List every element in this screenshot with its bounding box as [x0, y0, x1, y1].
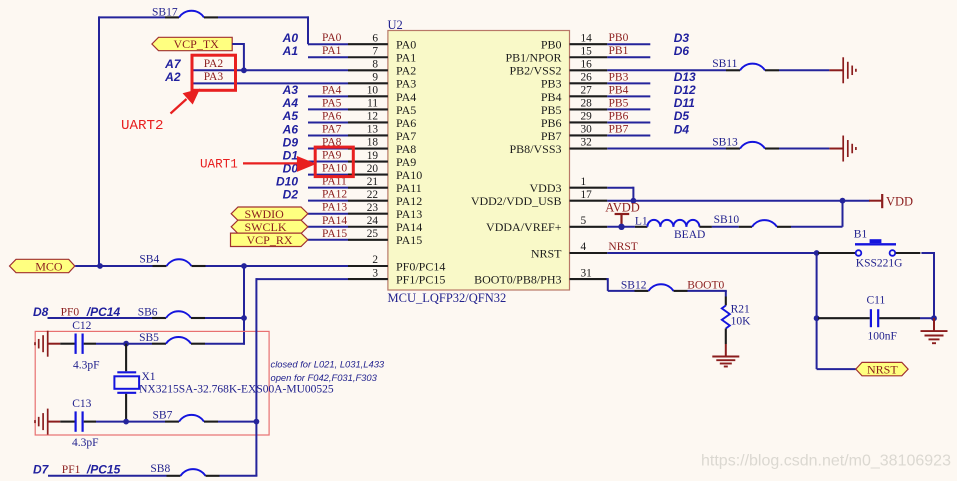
pin 6 (PA0): [348, 32, 388, 44]
svg-text:10: 10: [367, 85, 379, 97]
ground (SB13): [829, 136, 856, 162]
pin 13 (PA7): [348, 124, 388, 136]
svg-text:C12: C12: [72, 320, 91, 332]
svg-text:PB8/VSS3: PB8/VSS3: [509, 142, 561, 156]
svg-text:AVDD: AVDD: [605, 201, 640, 215]
wire NRST vertical left: [816, 253, 818, 369]
svg-text:21: 21: [367, 176, 378, 188]
label A2: [164, 70, 181, 84]
svg-text:15: 15: [581, 45, 593, 57]
svg-text:VDD2/VDD_USB: VDD2/VDD_USB: [471, 194, 562, 208]
svg-text:8: 8: [372, 58, 378, 70]
label D11: [674, 96, 695, 110]
pin 3 (PF1/PC15): [348, 267, 388, 279]
svg-text:VDDA/VREF+: VDDA/VREF+: [486, 220, 562, 234]
svg-text:PF1/PC15: PF1/PC15: [396, 273, 445, 287]
wire C12 to SB5: [96, 343, 152, 345]
net label PA15: [322, 228, 347, 240]
svg-text:PF0/PC14: PF0/PC14: [396, 259, 445, 273]
capacitor C11: [818, 294, 920, 342]
crystal X1: [114, 344, 333, 422]
svg-text:C13: C13: [72, 398, 91, 410]
wire PA6 stub: [308, 121, 348, 123]
svg-text:PB3: PB3: [541, 77, 562, 91]
net label PA9: [322, 150, 342, 162]
svg-text:PA4: PA4: [322, 84, 342, 96]
svg-text:SB4: SB4: [139, 253, 159, 265]
svg-text:D9: D9: [283, 135, 299, 149]
wire pin31 jog: [606, 278, 634, 291]
svg-text:30: 30: [581, 124, 593, 136]
pin 23 (PA13): [348, 202, 388, 214]
net label PF0: [61, 306, 80, 318]
svg-text:/PC14: /PC14: [86, 305, 121, 319]
svg-text:D13: D13: [674, 70, 696, 84]
capacitor C12: [60, 320, 99, 372]
net label PA10: [322, 163, 347, 175]
pin 7 (PA1): [348, 45, 388, 57]
net label PA12: [322, 189, 347, 201]
annotation text UART2: [121, 118, 164, 134]
svg-text:25: 25: [367, 228, 379, 240]
wire VCP_TX to PA2: [232, 43, 244, 70]
wire SB11 to ground: [779, 69, 829, 71]
wire PB1 stub: [607, 56, 650, 58]
junction SB6/branch: [241, 315, 247, 321]
svg-text:SB10: SB10: [714, 214, 740, 226]
svg-text:D5: D5: [674, 109, 690, 123]
svg-text:BEAD: BEAD: [674, 229, 705, 241]
solder bridge SB17: [152, 6, 218, 18]
net label PB5: [609, 97, 629, 109]
svg-text:22: 22: [367, 189, 379, 201]
wire PA2: [193, 69, 348, 71]
wire SB7 to pin3 branch: [218, 421, 256, 423]
annotation box UART1 (PA9/PA10): [315, 147, 353, 177]
net label PA8: [322, 137, 342, 149]
svg-text:UART2: UART2: [121, 118, 164, 134]
wire PA9 stub: [308, 161, 348, 163]
solder bridge SB8: [150, 463, 219, 476]
port NRST: [856, 362, 908, 376]
capacitor C13: [60, 398, 98, 449]
wire PA14 stub: [308, 226, 348, 228]
label D13: [674, 70, 696, 84]
svg-text:https://blog.csdn.net/m0_38106: https://blog.csdn.net/m0_38106923: [701, 453, 951, 470]
svg-text:A1: A1: [282, 44, 299, 58]
svg-text:PA9: PA9: [396, 155, 416, 169]
wire SB6 to branch: [205, 317, 244, 319]
svg-text:10K: 10K: [731, 316, 752, 328]
svg-text:PA6: PA6: [322, 110, 342, 122]
solder bridge SB6: [138, 306, 205, 318]
svg-text:PB0: PB0: [609, 32, 629, 44]
svg-text:VDD: VDD: [886, 194, 913, 208]
svg-text:PA4: PA4: [396, 90, 416, 104]
svg-text:PA13: PA13: [396, 207, 422, 221]
pin 11 (PA5): [348, 98, 388, 110]
wire C11 right: [920, 317, 934, 319]
svg-text:D6: D6: [674, 44, 690, 58]
watermark: [701, 453, 951, 470]
label /PC14: [86, 305, 121, 319]
svg-text:SB7: SB7: [153, 409, 173, 421]
svg-text:4.3pF: 4.3pF: [72, 437, 99, 449]
svg-text:PB6: PB6: [541, 116, 562, 130]
svg-text:D10: D10: [276, 174, 298, 188]
svg-text:SWCLK: SWCLK: [245, 220, 287, 234]
svg-text:PA10: PA10: [322, 163, 347, 175]
junction VDD/SB10: [840, 198, 846, 204]
label A7: [164, 57, 182, 71]
wire PA13 stub: [308, 213, 348, 215]
svg-text:PA5: PA5: [396, 103, 416, 117]
wire MCO to SB4: [75, 265, 152, 267]
ground (SB11): [829, 57, 856, 83]
pin 15 (PB1/NPOR): [570, 45, 608, 57]
svg-text:PA3: PA3: [204, 71, 224, 83]
pin 16 (PB2/VSS2): [570, 58, 608, 70]
label D12: [674, 83, 696, 97]
svg-text:PA6: PA6: [396, 116, 416, 130]
net label PB7: [609, 123, 629, 135]
annotation text UART1: [200, 158, 238, 172]
solder bridge SB13: [712, 137, 779, 149]
svg-text:D3: D3: [674, 31, 690, 45]
wire SB8 to pin3: [220, 475, 258, 477]
svg-text:18: 18: [367, 137, 379, 149]
svg-text:32: 32: [581, 137, 593, 149]
junction VCP_TX/PA2: [241, 67, 247, 73]
svg-text:BOOT0: BOOT0: [687, 280, 724, 292]
svg-text:17: 17: [581, 189, 593, 201]
junction pin1/pin17: [631, 198, 637, 204]
svg-text:PA1: PA1: [322, 45, 342, 57]
label D3: [674, 31, 690, 45]
wire SB17 left: [99, 16, 165, 267]
svg-text:PA14: PA14: [322, 215, 347, 227]
wire PB3 stub: [607, 82, 650, 84]
svg-text:24: 24: [367, 215, 379, 227]
svg-text:PA15: PA15: [322, 228, 347, 240]
pin 27 (PB4): [570, 85, 608, 97]
svg-text:A4: A4: [282, 96, 299, 110]
svg-text:PB5: PB5: [609, 97, 629, 109]
svg-text:SB6: SB6: [138, 306, 158, 318]
wire SB12 to R21: [688, 291, 727, 297]
svg-text:PA7: PA7: [396, 129, 416, 143]
pin 19 (PA9): [348, 150, 388, 162]
svg-text:PB3: PB3: [609, 71, 629, 83]
net label PA7: [322, 123, 342, 135]
svg-text:PB5: PB5: [541, 103, 562, 117]
label A4: [282, 96, 299, 110]
pin 29 (PB6): [570, 111, 608, 123]
wire PA12 stub: [308, 200, 348, 202]
wire PF1 to SB8: [48, 475, 167, 477]
svg-text:open for F042,F031,F303: open for F042,F031,F303: [271, 372, 378, 383]
label D10: [276, 174, 298, 188]
wire pin1 down: [607, 187, 633, 201]
svg-text:VCP_TX: VCP_TX: [174, 37, 220, 51]
net label PB0: [609, 32, 629, 44]
svg-text:14: 14: [581, 32, 593, 44]
svg-text:KSS221G: KSS221G: [856, 258, 903, 270]
svg-text:D1: D1: [283, 148, 299, 162]
svg-text:2: 2: [372, 254, 378, 266]
svg-text:R21: R21: [731, 303, 750, 315]
annotation arrow UART2: [171, 90, 199, 113]
svg-text:9: 9: [372, 72, 378, 84]
wire SB4 to pin2: [206, 265, 349, 267]
pin 9 (PA3): [348, 72, 388, 84]
wire PB5 stub: [607, 108, 650, 110]
junction C12/X1: [123, 341, 129, 347]
svg-text:PA10: PA10: [396, 168, 422, 182]
label /PC15: [86, 463, 121, 477]
net label NRST: [608, 241, 637, 253]
net label PA1: [322, 45, 342, 57]
wire to NRST port: [817, 368, 856, 370]
svg-text:PA0: PA0: [396, 38, 416, 52]
pin 14 (PB0): [570, 32, 608, 44]
junction C11 left: [814, 315, 820, 321]
wire PA7 stub: [308, 134, 348, 136]
svg-text:PA8: PA8: [396, 142, 416, 156]
label D9: [283, 135, 299, 149]
port SWDIO: [231, 207, 308, 221]
svg-text:PA12: PA12: [322, 189, 347, 201]
svg-text:4: 4: [581, 241, 587, 253]
svg-text:A6: A6: [282, 122, 299, 136]
svg-text:C11: C11: [867, 294, 886, 306]
svg-text:PA0: PA0: [322, 32, 342, 44]
svg-text:PA13: PA13: [322, 202, 347, 214]
svg-text:PB4: PB4: [541, 90, 562, 104]
wire PB4 stub: [607, 95, 650, 97]
pin 20 (PA10): [348, 163, 388, 175]
pin 28 (PB5): [570, 98, 608, 110]
svg-text:closed for L021, L031,L433: closed for L021, L031,L433: [271, 358, 385, 369]
pin 2 (PF0/PC14): [348, 254, 388, 266]
net label PB3: [609, 71, 629, 83]
wire branch down to SB6/SB5: [243, 266, 245, 345]
annotation box oscillator: [35, 331, 269, 435]
pin 4 (NRST): [570, 241, 608, 253]
MCU U2 (MCU_LQFP32/QFN32): [388, 18, 570, 305]
svg-text:B1: B1: [854, 228, 868, 240]
label D8: [33, 305, 49, 319]
svg-text:1: 1: [581, 176, 587, 188]
svg-text:4.3pF: 4.3pF: [73, 360, 100, 372]
svg-text:PB7: PB7: [609, 123, 629, 135]
svg-text:27: 27: [581, 85, 593, 97]
net label PA14: [322, 215, 347, 227]
svg-text:PB1/NPOR: PB1/NPOR: [505, 51, 561, 65]
ground (R21): [712, 344, 739, 367]
wire pin17 to VDD: [607, 200, 870, 202]
svg-text:23: 23: [367, 202, 379, 214]
svg-text:L1: L1: [635, 216, 648, 228]
svg-text:A3: A3: [282, 83, 299, 97]
label D1: [283, 148, 299, 162]
svg-text:PA9: PA9: [322, 150, 342, 162]
wire SB5 to branch: [205, 343, 245, 345]
svg-text:D11: D11: [674, 96, 695, 110]
inductor L1 BEAD: [635, 216, 712, 241]
label A1: [282, 44, 299, 58]
pin 17 (VDD2/VDD_USB): [570, 189, 608, 201]
svg-text:D8: D8: [33, 305, 49, 319]
wire PA10 stub: [308, 174, 348, 176]
svg-text:PA3: PA3: [396, 77, 416, 91]
wire PA0 stub: [308, 43, 348, 45]
push button B1: [818, 228, 920, 269]
wire PA15 stub: [308, 239, 348, 241]
solder bridge SB12: [621, 279, 688, 291]
wire C13 to SB7: [96, 421, 165, 423]
svg-text:MCO: MCO: [35, 259, 63, 273]
pin 12 (PA6): [348, 111, 388, 123]
wire L1 to SB10: [712, 226, 739, 228]
ground (C12): [35, 331, 60, 357]
svg-text:5: 5: [581, 215, 587, 227]
svg-text:NRST: NRST: [867, 362, 898, 376]
net label PA6: [322, 110, 342, 122]
pin 5 (VDDA/VREF+): [570, 215, 608, 227]
svg-text:PA14: PA14: [396, 220, 422, 234]
wire PB6 stub: [607, 121, 650, 123]
svg-text:PF1: PF1: [62, 464, 81, 476]
wire PF0 to SB6: [48, 317, 153, 319]
ground (C13): [35, 409, 60, 435]
pin 10 (PA4): [348, 85, 388, 97]
pin 26 (PB3): [570, 72, 608, 84]
junction MCO/SB17: [97, 263, 103, 269]
solder bridge SB11: [712, 58, 779, 70]
svg-text:31: 31: [581, 267, 592, 279]
svg-text:PB0: PB0: [541, 38, 562, 52]
svg-text:UART1: UART1: [200, 158, 238, 172]
svg-text:SB11: SB11: [712, 58, 737, 70]
wire pin16 to SB11: [607, 69, 726, 71]
wire PA5 stub: [308, 108, 348, 110]
net label PB1: [609, 45, 629, 57]
net label PA11: [322, 176, 347, 188]
label D5: [674, 109, 690, 123]
svg-text:SWDIO: SWDIO: [245, 207, 285, 221]
junction AVDD: [618, 224, 624, 230]
svg-text:13: 13: [367, 124, 379, 136]
pin 22 (PA12): [348, 189, 388, 201]
svg-text:PB6: PB6: [609, 110, 629, 122]
label D7: [33, 463, 50, 477]
wire PA3: [193, 82, 348, 84]
junction NRST left: [814, 250, 820, 256]
svg-text:BOOT0/PB8/PH3: BOOT0/PB8/PH3: [474, 273, 561, 287]
annotation arrow UART1: [243, 158, 314, 171]
wire pin5 to L1: [607, 226, 635, 228]
label A5: [282, 109, 299, 123]
ground (C11): [921, 318, 948, 343]
svg-text:VCP_RX: VCP_RX: [247, 233, 293, 247]
wire SB13 to ground: [779, 148, 829, 150]
pin 21 (PA11): [348, 176, 388, 188]
wire B1 to right vertical: [921, 252, 934, 318]
svg-text:PA5: PA5: [322, 97, 342, 109]
svg-text:D2: D2: [283, 187, 299, 201]
net label PF1: [62, 464, 81, 476]
svg-text:PA2: PA2: [204, 58, 224, 70]
net label PA3: [204, 71, 224, 83]
svg-text:PA1: PA1: [396, 51, 416, 65]
net label PA5: [322, 97, 342, 109]
svg-text:MCU_LQFP32/QFN32: MCU_LQFP32/QFN32: [388, 291, 507, 305]
svg-text:D4: D4: [674, 122, 690, 136]
net label PB4: [609, 84, 629, 96]
wire PB0 stub: [607, 43, 650, 45]
label D4: [674, 122, 690, 136]
svg-text:12: 12: [367, 111, 379, 123]
solder bridge SB10: [714, 214, 791, 227]
svg-text:29: 29: [581, 111, 593, 123]
net label PB6: [609, 110, 629, 122]
svg-text:NRST: NRST: [608, 241, 637, 253]
pin 18 (PA8): [348, 137, 388, 149]
wire VDD down to SB10: [842, 201, 844, 227]
net label PA4: [322, 84, 342, 96]
svg-text:PA11: PA11: [396, 181, 422, 195]
port MCO: [10, 259, 75, 273]
label D2: [283, 187, 299, 201]
svg-text:7: 7: [372, 45, 378, 57]
resistor R21 10K: [722, 297, 751, 345]
wire PA11 stub: [308, 187, 348, 189]
solder bridge SB5: [139, 332, 205, 344]
label D6: [674, 44, 690, 58]
label D0: [283, 161, 299, 175]
svg-text:A2: A2: [164, 70, 181, 84]
svg-text:PB4: PB4: [609, 84, 629, 96]
wire pin4 to B1: [607, 252, 816, 254]
svg-text:SB5: SB5: [139, 332, 159, 344]
wire PA8 stub: [308, 148, 348, 150]
svg-text:PA15: PA15: [396, 233, 422, 247]
svg-text:100nF: 100nF: [868, 331, 897, 343]
svg-text:/PC15: /PC15: [86, 463, 121, 477]
svg-text:A7: A7: [164, 57, 182, 71]
pin 32 (PB8/VSS3): [570, 137, 608, 149]
svg-text:SB13: SB13: [712, 137, 738, 149]
svg-text:PF0: PF0: [61, 306, 80, 318]
pin 31 (BOOT0/PB8/PH3): [570, 267, 608, 279]
junction SB7/pin3: [254, 419, 260, 425]
svg-text:PA7: PA7: [322, 123, 342, 135]
label A6: [282, 122, 299, 136]
pin 25 (PA15): [348, 228, 388, 240]
annotation text open-for: [271, 372, 378, 383]
svg-text:U2: U2: [388, 18, 403, 32]
power port AVDD: [605, 201, 640, 227]
svg-text:X1: X1: [142, 371, 156, 383]
pin 24 (PA14): [348, 215, 388, 227]
solder bridge SB7: [153, 409, 219, 421]
junction C11 right: [931, 315, 937, 321]
svg-text:PA2: PA2: [396, 64, 416, 78]
wire PA4 stub: [308, 95, 348, 97]
junction pin2 branch: [241, 263, 247, 269]
svg-text:6: 6: [372, 32, 378, 44]
